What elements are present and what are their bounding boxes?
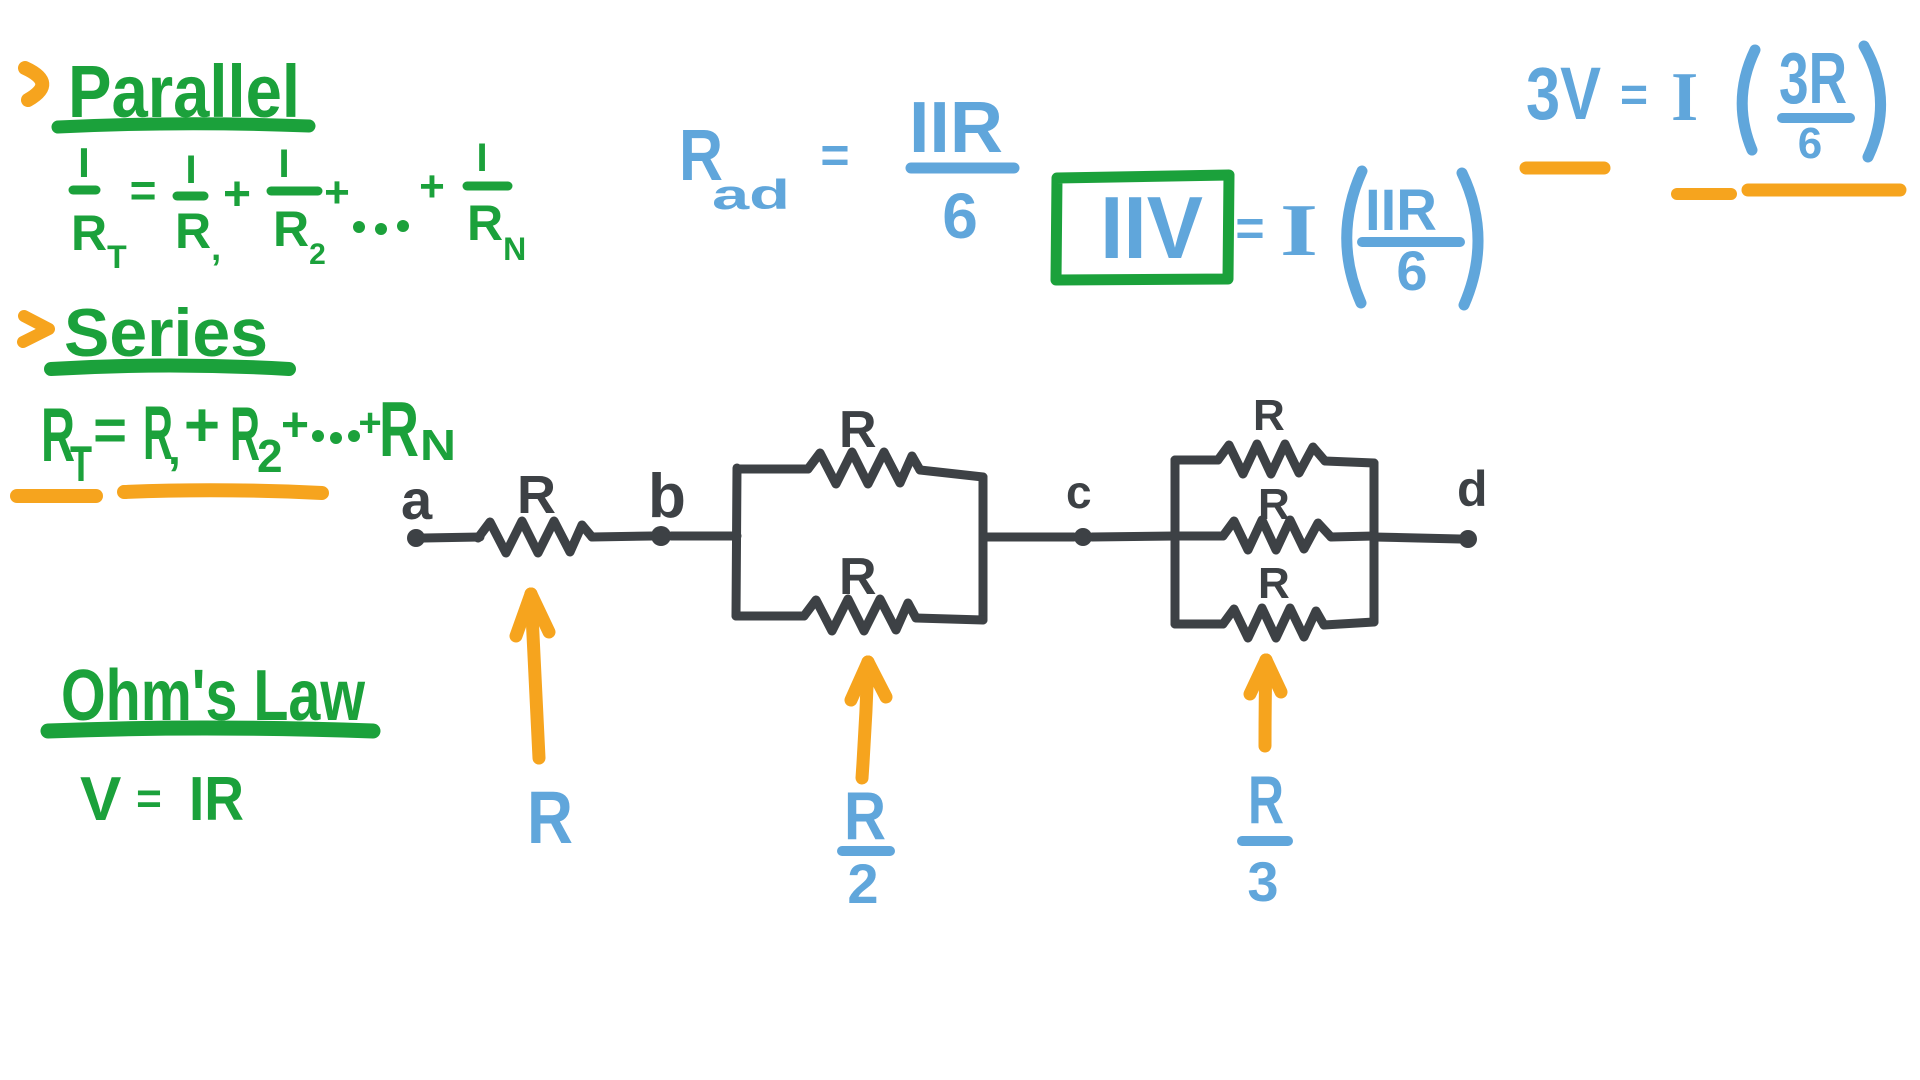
- orange underline (below 3V): [1526, 162, 1604, 175]
- formula RT = R1 + R2 + ... + RN (green): [41, 385, 456, 492]
- svg-text:ad: ad: [712, 171, 790, 218]
- resistor R4 (top branch of second parallel block): [1175, 391, 1374, 474]
- svg-text:=: =: [1620, 69, 1648, 122]
- svg-text:2: 2: [257, 430, 283, 482]
- svg-text:I: I: [1280, 190, 1318, 272]
- svg-text:IR: IR: [189, 765, 244, 834]
- value label R/3 (blue, under third arrow): [1242, 762, 1288, 913]
- resistor R6 (bottom branch of second parallel block): [1175, 559, 1374, 638]
- value label R (blue, under first arrow): [527, 776, 573, 859]
- value 11V (blue, boxed): [1100, 178, 1203, 277]
- svg-text:R: R: [839, 548, 877, 606]
- annotation arrow (orange) pointing at second parallel block: [1250, 660, 1281, 746]
- node a: [401, 468, 433, 547]
- orange underline (below I): [1677, 188, 1731, 200]
- wire second block to d: [1374, 537, 1460, 539]
- svg-text:3V: 3V: [1526, 52, 1601, 135]
- wire: left edge of second parallel block: [1171, 460, 1180, 624]
- svg-text:IIV: IIV: [1100, 178, 1203, 277]
- bullet chevron (orange) before Series: [23, 316, 49, 342]
- svg-text:+: +: [184, 391, 220, 460]
- resistor R5 (middle branch of second parallel block): [1175, 480, 1374, 550]
- svg-text:+: +: [324, 168, 350, 217]
- svg-text:I: I: [185, 148, 196, 192]
- svg-text:2: 2: [847, 852, 878, 915]
- svg-text:R: R: [230, 392, 260, 477]
- svg-text:=: =: [93, 398, 127, 463]
- svg-text:R: R: [1258, 480, 1290, 529]
- wire a to R1: [424, 537, 480, 538]
- heading "Ohm's Law" (green, underlined): [48, 656, 373, 736]
- node d: [1457, 461, 1488, 548]
- wire: right edge of first parallel block: [979, 477, 988, 620]
- svg-text:=: =: [136, 774, 162, 823]
- svg-text:V: V: [80, 765, 121, 834]
- svg-text:I: I: [476, 136, 487, 180]
- svg-text:T: T: [70, 436, 92, 492]
- svg-text:I: I: [278, 142, 289, 186]
- orange underline short (below RT): [17, 489, 96, 503]
- value label R/2 (blue, under second arrow): [842, 778, 890, 915]
- svg-text:R: R: [379, 385, 419, 473]
- wire: left edge of first parallel block: [736, 468, 737, 616]
- svg-text:6: 6: [1798, 119, 1822, 168]
- wire: right edge of second parallel block: [1370, 463, 1379, 622]
- svg-text:R: R: [517, 465, 556, 525]
- resistor R2 (top branch of first parallel block): [737, 401, 983, 484]
- svg-text:3: 3: [1247, 850, 1278, 913]
- node b: [648, 462, 686, 546]
- svg-text:a: a: [401, 468, 433, 531]
- wire c to second parallel block: [1092, 536, 1175, 537]
- svg-text:I: I: [78, 139, 90, 186]
- orange underline (below 3R/6): [1748, 184, 1900, 197]
- svg-text:6: 6: [1396, 239, 1427, 302]
- formula V = IR (green): [80, 765, 244, 834]
- svg-text:R: R: [1258, 559, 1290, 608]
- heading "Series" (green, underlined): [51, 295, 289, 371]
- resistor R3 (bottom branch of first parallel block): [736, 548, 983, 631]
- svg-text:N: N: [420, 421, 456, 470]
- svg-text:R: R: [839, 401, 877, 459]
- annotation arrow (orange) pointing at R1: [516, 594, 549, 758]
- svg-text:c: c: [1066, 466, 1092, 518]
- svg-text:I: I: [1671, 59, 1698, 136]
- blue = I(11R/6): [1235, 171, 1478, 305]
- wire b to first parallel block: [671, 532, 737, 541]
- svg-text:IIR: IIR: [1365, 178, 1437, 243]
- svg-text:3R: 3R: [1779, 39, 1847, 119]
- wire R1 to b: [592, 536, 652, 537]
- bullet chevron (orange) before Parallel: [25, 68, 42, 100]
- svg-text:+: +: [419, 162, 445, 211]
- svg-text:IIR: IIR: [909, 88, 1003, 168]
- svg-text:R: R: [1253, 391, 1285, 440]
- wire first block to c: [983, 533, 1074, 542]
- svg-text:b: b: [648, 462, 686, 531]
- svg-text:=: =: [130, 164, 157, 216]
- blue formula 3V = I(3R/6) top right: [1526, 39, 1881, 168]
- svg-text:R: R: [1248, 762, 1284, 838]
- green box around 11V: [1056, 175, 1229, 280]
- svg-text:d: d: [1457, 461, 1488, 517]
- svg-text:R: R: [527, 776, 573, 859]
- svg-text:6: 6: [942, 180, 978, 252]
- svg-text:R: R: [844, 778, 886, 854]
- resistor R1 (series R between a and b): [478, 465, 592, 553]
- svg-text:=: =: [820, 127, 849, 183]
- blue formula R_ad = 11R/6: [679, 88, 1014, 252]
- svg-text:+: +: [223, 168, 251, 221]
- svg-text:=: =: [1235, 200, 1264, 256]
- heading "Parallel" (green, underlined): [58, 50, 309, 133]
- svg-text:+: +: [281, 399, 309, 452]
- formula 1/RT = 1/R1 + 1/R2 + ... + 1/RN (green): [71, 136, 526, 275]
- node c: [1066, 466, 1092, 546]
- svg-text:,: ,: [168, 422, 181, 474]
- orange underline long (below R1+R2...): [124, 490, 322, 493]
- annotation arrow (orange) pointing at first parallel block: [851, 662, 886, 778]
